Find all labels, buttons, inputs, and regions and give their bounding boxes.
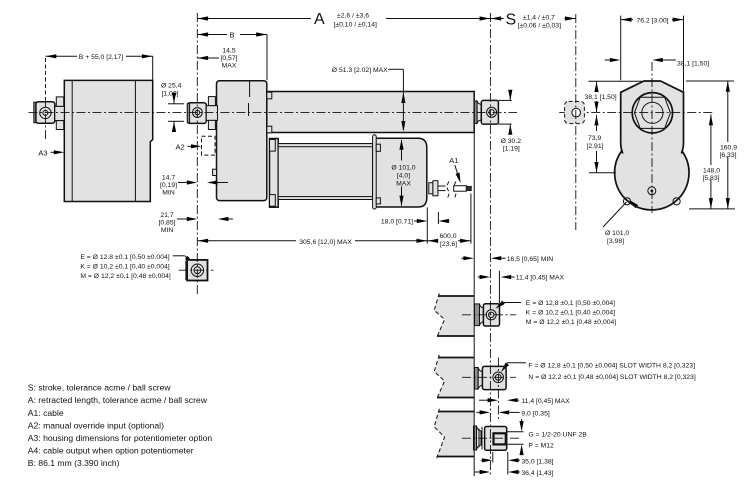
A4 cable output dashed box: [565, 101, 585, 123]
pot hex nut stack: [56, 97, 63, 107]
dimension S (stroke): [490, 12, 575, 30]
svg-text:A2: A2: [176, 142, 185, 151]
svg-text:G = 1/2-20 UNF 2B: G = 1/2-20 UNF 2B: [528, 432, 587, 439]
dimension 148,0 [5,83]: [702, 114, 721, 208]
label P leader: [520, 442, 554, 455]
dimension 16,5 [0,65] MIN: [461, 256, 553, 263]
svg-text:M = Ø 12,2 ±0,1 [0,48 ±0,004]: M = Ø 12,2 ±0,1 [0,48 ±0,004]: [526, 319, 617, 326]
tube (cylinder): [267, 92, 474, 133]
gear housing parting line (top): [249, 81, 251, 97]
svg-text:Ø 101,0: Ø 101,0: [391, 165, 415, 172]
centerline detail 3: [462, 437, 520, 439]
motor tie rod nuts: [376, 144, 380, 151]
threaded hole rect (detail 3): [494, 433, 506, 444]
tube end bolts on housing: [267, 92, 272, 99]
svg-text:14,5: 14,5: [222, 48, 235, 55]
extension lines for 35/36.4: [492, 452, 494, 462]
svg-text:[23,6]: [23,6]: [440, 241, 457, 248]
leader detail 2: [499, 363, 526, 374]
dimension 9,0 [0,35]: [476, 410, 549, 417]
legend text block: [28, 383, 213, 469]
svg-text:K = Ø 10,2 ±0,1 [0,40 ±0,004]: K = Ø 10,2 ±0,1 [0,40 ±0,004]: [80, 264, 169, 271]
clevis block (detail 2): [482, 366, 506, 389]
svg-text:[0,19]: [0,19]: [160, 182, 177, 189]
A2 dashed box (manual override): [202, 136, 216, 155]
hex nut outer circle: [632, 93, 672, 133]
piston rod neck (main): [474, 101, 477, 123]
motor tie rod top: [278, 144, 372, 147]
rod eye hole (main): [487, 107, 497, 117]
dimension 35,0 [1,38]: [481, 458, 554, 465]
centerline detail 2: [462, 376, 516, 378]
rod taper (detail 3): [477, 426, 482, 449]
svg-text:Ø 101,0: Ø 101,0: [605, 230, 629, 237]
end view motor circle outline (visible arcs): [615, 151, 689, 210]
eye block (detail 1): [483, 304, 499, 326]
leader detail 1: [494, 301, 521, 311]
dimension 76,2 [3,00]: [621, 16, 684, 92]
dimension 600,0 [23,6]: [427, 233, 471, 248]
dimension diameter 101,0 [3,98] leader: [603, 198, 638, 245]
centerline: main horizontal axis: [29, 111, 518, 113]
svg-text:73,9: 73,9: [588, 135, 601, 142]
F/N text block: [528, 363, 695, 382]
svg-text:A2: manual override input (opt: A2: manual override input (optional): [28, 421, 164, 431]
svg-text:A3: A3: [38, 148, 47, 157]
svg-text:A1: A1: [449, 156, 458, 165]
square section hole: [191, 264, 203, 276]
end view centerline vertical: [651, 62, 653, 213]
tube section with break (detail 1): [434, 296, 474, 336]
svg-text:A4: cable output when option p: A4: cable output when option potentiomet…: [28, 446, 194, 456]
centerline: stroke end / A4 vertical datum: [575, 14, 577, 230]
svg-text:B: B: [230, 31, 235, 40]
svg-text:38,1 [1,50]: 38,1 [1,50]: [585, 94, 617, 101]
square section crosshair: [179, 269, 214, 271]
svg-text:E = Ø 12,8 ±0,1 [0,50 ±0,004]: E = Ø 12,8 ±0,1 [0,50 ±0,004]: [526, 300, 615, 307]
motor flange: [270, 139, 279, 208]
svg-text:14,7: 14,7: [162, 175, 175, 182]
motor flange bolts: [270, 140, 276, 152]
cylinder body (detail 3): [485, 427, 507, 451]
cable break marks: [447, 182, 450, 200]
svg-text:Ø 25,4: Ø 25,4: [161, 83, 182, 90]
svg-text:MAX: MAX: [222, 63, 237, 70]
gear housing parting line (mid): [248, 103, 250, 116]
svg-text:21,7: 21,7: [160, 212, 173, 219]
threaded collar lines (detail 3): [478, 429, 480, 448]
pot clevis hole: [40, 107, 51, 118]
motor end plate: [373, 135, 377, 209]
rear clevis block: [188, 103, 207, 124]
tube section with break (detail 2): [434, 358, 474, 398]
svg-text:160,9: 160,9: [720, 145, 737, 152]
rod taper (detail 1): [480, 304, 484, 325]
end view body outline: [621, 81, 684, 154]
centerline: left datum vertical (rear clevis pin): [196, 13, 198, 295]
eye hole (detail 1): [486, 310, 496, 320]
motor rear body: [375, 138, 427, 207]
label A3 with leader: [38, 148, 64, 157]
extension line: motor face: [426, 208, 428, 244]
svg-text:F = Ø 12,8 ±0,1 [0,50 ±0,004]: F = Ø 12,8 ±0,1 [0,50 ±0,004] SLOT WIDTH…: [528, 363, 695, 370]
clevis hole (detail 2): [493, 372, 504, 383]
svg-text:P = M12: P = M12: [528, 442, 554, 449]
dimension B: [197, 31, 267, 81]
rear clevis dark edge: [187, 104, 189, 123]
dimension 73,9 [2,91]: [587, 115, 617, 173]
dimension 14,5 MAX: [197, 48, 237, 70]
svg-text:148,0: 148,0: [703, 168, 720, 175]
label A1 with leader: [449, 156, 462, 184]
svg-text:N = Ø 12,2 ±0,1 [0,48 ±0,004]: N = Ø 12,2 ±0,1 [0,48 ±0,004] SLOT WIDTH…: [528, 374, 695, 381]
extension line: cable end: [470, 194, 472, 244]
hex nut hexagon: [634, 97, 670, 128]
svg-text:S: S: [506, 12, 517, 29]
svg-text:[2,91]: [2,91]: [587, 143, 604, 150]
extension line: body top edge to left: [588, 80, 642, 82]
svg-text:B: 86.1 mm (3.390 inch): B: 86.1 mm (3.390 inch): [28, 458, 120, 468]
svg-text:[6,33]: [6,33]: [720, 152, 737, 159]
dimension diameter 30.2: [498, 90, 521, 153]
svg-text:[3,98]: [3,98]: [607, 238, 624, 245]
extension line: tube face (long): [473, 133, 475, 476]
svg-text:A1: cable: A1: cable: [28, 408, 64, 418]
svg-text:MAX: MAX: [396, 181, 411, 188]
svg-text:[±0,10 / ±0,14]: [±0,10 / ±0,14]: [334, 22, 377, 29]
end view fill silhouette: [615, 81, 689, 209]
square section dark edge: [186, 261, 189, 280]
svg-text:35,0 [1,38]: 35,0 [1,38]: [521, 458, 553, 465]
dimension 18,0 [0,71]: [381, 212, 450, 226]
svg-text:MIN: MIN: [161, 227, 174, 234]
pot housing body: [64, 80, 152, 201]
svg-text:S: stroke, tolerance acme / ba: S: stroke, tolerance acme / ball screw: [28, 383, 172, 393]
dimension 38,1 [1,50] left vertical: [585, 82, 617, 113]
rear hex nut stack: [208, 97, 215, 106]
label G leader: [520, 419, 588, 439]
svg-text:B + 55,0 [2,17]: B + 55,0 [2,17]: [79, 54, 124, 61]
end view centerline horizontal: [559, 111, 713, 113]
rod eye block (main): [481, 100, 498, 124]
rod neck (detail 3): [474, 426, 477, 450]
svg-text:A: A: [314, 11, 325, 28]
dimension 11,4 [0,45] MAX (detail 1): [478, 271, 565, 304]
svg-text:36,4 [1,43]: 36,4 [1,43]: [521, 470, 553, 477]
svg-text:18,0 [0,71]: 18,0 [0,71]: [381, 219, 413, 226]
svg-text:A3: housing dimensions for pot: A3: housing dimensions for potentiometer…: [28, 433, 213, 443]
gear housing: [217, 81, 267, 201]
svg-text:[1.19]: [1.19]: [503, 146, 520, 153]
rod taper (detail 2): [478, 368, 482, 389]
svg-text:E = Ø 12.8 ±0.1 [0.50 ±0.004]: E = Ø 12.8 ±0.1 [0.50 ±0.004]: [80, 254, 169, 261]
svg-text:±1,4 / ±0,7: ±1,4 / ±0,7: [523, 15, 555, 22]
hex nut inner circle: [642, 102, 663, 123]
cable connector at motor: [429, 183, 433, 194]
extension line: end view bottom: [689, 208, 735, 210]
bottom screw hole: [648, 187, 656, 195]
rod taper (main): [477, 101, 481, 123]
A4 cable circle: [572, 108, 581, 117]
svg-text:[0,57]: [0,57]: [220, 55, 237, 62]
E/K/M text block left: [80, 254, 171, 280]
dimension 21,7 MIN: [158, 212, 233, 234]
motor can body: [278, 144, 372, 200]
dimension diameter 101,0 MAX: [388, 139, 419, 206]
E/K/M text block right: [526, 300, 617, 326]
centerline: pot clevis pin vertical: [45, 98, 47, 140]
svg-text:MIN: MIN: [162, 190, 175, 197]
tube section with break (detail 3): [434, 412, 474, 457]
dimension diameter 51.3 MAX with leader: [332, 67, 406, 132]
svg-text:[4,0]: [4,0]: [397, 173, 410, 180]
dimension 11,4 [0,45] MAX (detail 2): [479, 398, 570, 405]
cable end connector: [454, 186, 467, 192]
pot housing left strip line: [71, 80, 73, 201]
svg-text:Ø 30.2: Ø 30.2: [501, 138, 522, 145]
svg-text:16,5 [0,65] MIN: 16,5 [0,65] MIN: [507, 256, 554, 263]
svg-text:600,0: 600,0: [439, 233, 456, 240]
svg-text:M = Ø 12,2 ±0,1 [0,48 ±0,004]: M = Ø 12,2 ±0,1 [0,48 ±0,004]: [80, 273, 171, 280]
pot clevis small step: [34, 102, 38, 123]
corner hole right: [673, 198, 680, 205]
dimension A (retracted length): [197, 11, 490, 29]
square section body: [187, 260, 207, 281]
dimension 14,7 MIN: [160, 175, 228, 197]
extension line: end view top right: [686, 80, 734, 82]
pot housing interior line: [134, 80, 136, 201]
svg-text:Ø 51.3 [2.02] MAX: Ø 51.3 [2.02] MAX: [332, 67, 388, 74]
svg-text:[0,85]: [0,85]: [158, 220, 175, 227]
rear clevis hole: [193, 108, 203, 118]
leader to square: [173, 256, 196, 266]
svg-text:K = Ø 10,2 ±0,1 [0,40 ±0,004]: K = Ø 10,2 ±0,1 [0,40 ±0,004]: [526, 310, 615, 317]
cable segment: [438, 185, 446, 187]
dimension 38,1 [1,50] top: [605, 58, 710, 68]
centerline: rod eye vertical datum: [489, 13, 491, 476]
svg-text:76.2 [3.00]: 76.2 [3.00]: [636, 17, 668, 24]
manual override port bump: [213, 169, 217, 175]
rod neck (detail 2): [475, 368, 479, 390]
dimension 305,6 [12,0] MAX: [197, 239, 427, 246]
extension lines hole top/bottom: [507, 431, 524, 433]
dimension diameter 25,4 [1,00]: [161, 83, 184, 133]
svg-text:305,6 [12,0] MAX: 305,6 [12,0] MAX: [299, 239, 352, 246]
corner hole left: [623, 198, 630, 205]
motor tie rod bottom: [278, 197, 372, 200]
hole centerline vertical (detail 2): [497, 358, 499, 421]
rod neck (detail 1): [475, 304, 480, 326]
dimension B + 55,0 [2,17]: [46, 54, 153, 98]
svg-text:11,4 [0,45] MAX: 11,4 [0,45] MAX: [521, 398, 570, 405]
pot clevis block: [36, 102, 55, 124]
svg-text:[1,00]: [1,00]: [162, 91, 179, 98]
svg-text:11,4 [0,45] MAX: 11,4 [0,45] MAX: [516, 275, 565, 282]
dimension 36,4 [1,43]: [475, 470, 554, 477]
label A2 with leader: [176, 142, 202, 151]
svg-text:[5,83]: [5,83]: [703, 175, 720, 182]
svg-text:9,0 [0,35]: 9,0 [0,35]: [521, 410, 549, 417]
svg-text:±2,6 / ±3,6: ±2,6 / ±3,6: [337, 13, 369, 20]
svg-text:38,1 [1,50]: 38,1 [1,50]: [677, 61, 709, 68]
dimension 160,9 [6,33]: [719, 81, 738, 209]
centerline detail 1: [462, 314, 516, 316]
svg-text:[±0,06 / ±0,03]: [±0,06 / ±0,03]: [518, 23, 561, 30]
svg-text:A: retracted length, tolerance: A: retracted length, tolerance acme / ba…: [28, 395, 208, 405]
